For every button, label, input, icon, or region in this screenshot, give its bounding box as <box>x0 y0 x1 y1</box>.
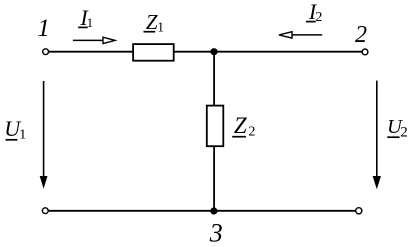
svg-text:3: 3 <box>209 219 223 247</box>
terminal 2 (open circle) <box>362 49 368 55</box>
svg-text:Z: Z <box>146 10 158 34</box>
wire vertical lower (Z2 to bottom node) <box>213 147 215 211</box>
current arrow I2 (line + open arrowhead, pointing left) <box>292 34 322 36</box>
wire top-left segment (terminal 1 to Z1) <box>48 51 132 53</box>
voltage arrow U2 (line + solid arrowhead down) <box>376 81 378 177</box>
terminal 1' bottom-left (open circle) <box>42 208 48 214</box>
current arrow I1 (line + open arrowhead) <box>73 39 103 41</box>
terminal 2' bottom-right (open circle) <box>356 208 362 214</box>
terminal 1 (open circle) <box>43 49 49 55</box>
resistor Z1 (series impedance box) <box>133 44 174 61</box>
svg-text:2: 2 <box>315 10 322 25</box>
svg-text:2: 2 <box>248 125 255 140</box>
svg-text:2: 2 <box>355 22 367 48</box>
svg-text:2: 2 <box>400 125 408 141</box>
svg-text:Z: Z <box>234 113 247 138</box>
node junction dot top (node between Z1 and Z2) <box>210 48 217 55</box>
svg-text:1: 1 <box>37 15 50 42</box>
wire top-right segment (Z1 to terminal 2) <box>175 51 363 53</box>
voltage arrow U1 (line + solid arrowhead down) <box>43 81 45 177</box>
svg-text:1: 1 <box>157 19 164 34</box>
wire bottom segment (terminal 1' to terminal 2') <box>48 210 356 212</box>
node junction dot bottom (node 3) <box>210 207 217 214</box>
resistor Z2 (shunt impedance box) <box>207 106 224 147</box>
wire vertical upper (node to Z2) <box>213 52 215 106</box>
svg-text:1: 1 <box>19 127 26 142</box>
